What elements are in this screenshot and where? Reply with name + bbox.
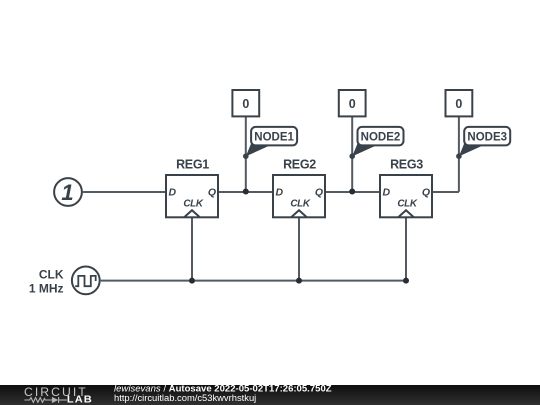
svg-text:REG3: REG3	[390, 158, 423, 172]
svg-text:LAB: LAB	[67, 395, 93, 405]
svg-text:1 MHz: 1 MHz	[29, 282, 64, 296]
svg-text:NODE3: NODE3	[467, 132, 507, 144]
svg-text:CLK: CLK	[397, 199, 417, 210]
svg-text:D: D	[276, 186, 284, 198]
svg-text:Q: Q	[315, 186, 323, 198]
svg-text:0: 0	[349, 97, 356, 111]
svg-text:0: 0	[242, 97, 249, 111]
svg-text:D: D	[383, 186, 391, 198]
svg-text:NODE2: NODE2	[361, 132, 401, 144]
svg-text:REG1: REG1	[176, 158, 209, 172]
svg-text:Q: Q	[208, 186, 216, 198]
svg-text:CLK: CLK	[183, 199, 203, 210]
svg-text:1: 1	[61, 180, 73, 205]
svg-text:CLK: CLK	[290, 199, 310, 210]
svg-text:Q: Q	[422, 186, 430, 198]
svg-text:REG2: REG2	[283, 158, 316, 172]
svg-text:0: 0	[455, 97, 462, 111]
svg-text:D: D	[169, 186, 177, 198]
svg-text:NODE1: NODE1	[254, 132, 294, 144]
svg-text:http://circuitlab.com/c53kwvrh: http://circuitlab.com/c53kwvrhstkuj	[114, 392, 256, 403]
svg-text:CLK: CLK	[39, 268, 64, 282]
